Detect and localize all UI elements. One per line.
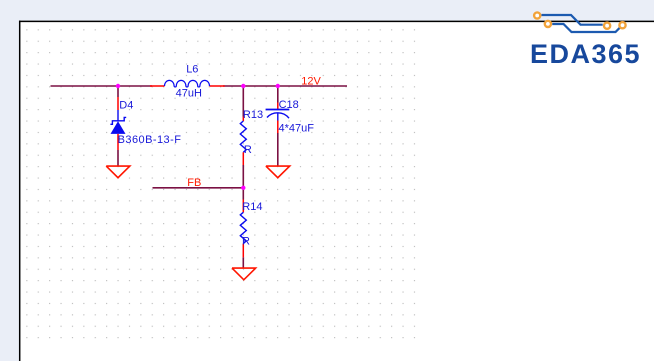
wire main horizontal 12V rail — [51, 85, 153, 87]
capacitor C18 pin bottom — [277, 121, 279, 134]
logo pad A — [534, 12, 540, 18]
wire R14 bottom to ground — [242, 257, 244, 268]
logo pad B — [545, 21, 551, 27]
svg-text:4*47uF: 4*47uF — [279, 123, 315, 135]
resistor R13 pin bottom — [242, 152, 244, 165]
wire R13 top — [242, 86, 244, 117]
svg-text:12V: 12V — [301, 75, 321, 87]
svg-text:R: R — [244, 144, 252, 156]
capacitor C18 bottom plate arc — [267, 113, 289, 118]
svg-text:C18: C18 — [279, 99, 299, 111]
inductor L6 pin left — [150, 85, 165, 87]
junction node FB — [241, 186, 245, 190]
junction node at C18 — [276, 84, 280, 88]
logo pad C — [604, 23, 610, 29]
svg-text:L6: L6 — [186, 63, 198, 75]
svg-text:R: R — [242, 236, 250, 248]
svg-text:FB: FB — [187, 177, 201, 189]
capacitor C18 top plate — [266, 109, 290, 111]
diode D4 body vertical — [117, 110, 119, 122]
logo trace 1 — [542, 15, 603, 25]
svg-text:EDA365: EDA365 — [530, 39, 641, 69]
wire diode branch upper — [117, 86, 119, 97]
ground under D4 — [106, 166, 130, 178]
logo trace 2 — [552, 24, 620, 32]
wire R14 top — [242, 188, 244, 200]
svg-text:R13: R13 — [243, 109, 263, 121]
sheet border left — [19, 21, 21, 361]
logo pad D — [619, 22, 625, 28]
ground under R14 — [232, 268, 256, 280]
diode D4 schottky cathode bar — [110, 117, 126, 124]
grid dots — [26, 29, 417, 340]
wire FB horizontal — [153, 187, 244, 189]
ground under C18 — [266, 166, 290, 178]
inductor L6 coil — [165, 80, 210, 87]
resistor R14 pin top — [242, 200, 244, 213]
junction node at D4 — [116, 84, 120, 88]
svg-text:R14: R14 — [242, 201, 262, 213]
diode D4 triangle — [111, 121, 126, 134]
svg-text:D4: D4 — [119, 100, 133, 112]
diode D4 pin top — [117, 97, 119, 110]
wire C18 top — [277, 86, 279, 103]
sheet border top — [19, 20, 654, 22]
resistor R14 zigzag — [240, 212, 246, 243]
junction node at R13 — [241, 84, 245, 88]
wire R13 bottom to FB node — [242, 165, 244, 188]
capacitor C18 pin top — [277, 103, 279, 110]
wire main right of L6 — [223, 85, 347, 87]
wire C18 bottom to ground — [277, 133, 279, 166]
svg-text:47uH: 47uH — [176, 87, 202, 99]
capacitor C18 arc stem — [277, 113, 279, 121]
resistor R14 pin bottom — [242, 244, 244, 258]
diode D4 pin bottom — [117, 134, 119, 150]
inductor L6 pin right — [210, 85, 225, 87]
resistor R13 pin top — [242, 117, 244, 122]
resistor R13 zigzag — [240, 121, 246, 152]
svg-text:B360B-13-F: B360B-13-F — [118, 134, 182, 146]
wire diode branch lower — [117, 150, 119, 166]
